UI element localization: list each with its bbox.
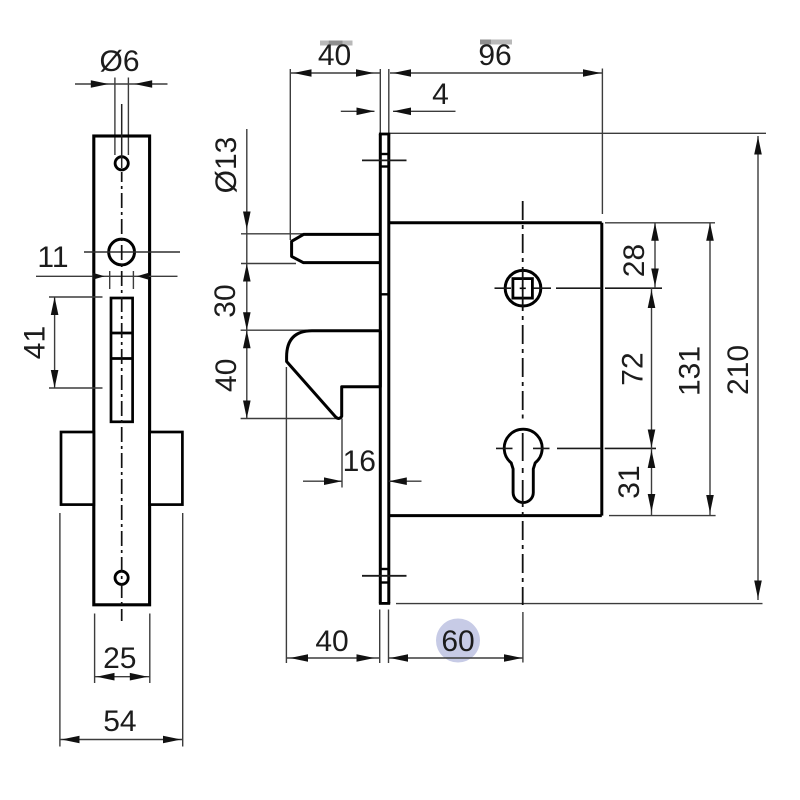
wire: 210 bottom extension line	[396, 603, 763, 605]
wire: 31 dimension line	[651, 448, 653, 515]
wire: 210 top extension line	[390, 132, 766, 134]
wire: center leader top	[121, 104, 123, 168]
svg-text:31: 31	[613, 465, 646, 498]
wire: bottom screw hole edge 2	[380, 581, 389, 583]
wire: plate face extension right above	[388, 69, 390, 134]
node: 16 arrow left (points right)	[324, 477, 342, 485]
wire: top screw hole edge 2	[380, 165, 389, 167]
node: Ø6 arrow left (points right)	[91, 80, 109, 88]
wire: pin hole horizontal centerline	[84, 251, 180, 253]
wire: body bottom tick right	[609, 515, 716, 517]
node: right side block	[150, 432, 183, 505]
node: grey smudge above 96	[480, 40, 512, 45]
node: faceplate side strip left face	[379, 134, 382, 603]
wire: 16 dimension line right	[389, 480, 422, 482]
node: 210 arrow up	[754, 137, 762, 155]
svg-text:Ø13: Ø13	[210, 137, 243, 194]
node: Ø13 arrow (points down)	[243, 212, 251, 230]
wire: tick hook point (y=418.5)	[241, 418, 338, 420]
wire: Ø6 dimension line	[75, 83, 168, 85]
node: 41 arrow down	[51, 370, 59, 388]
wire: 11 tick right	[132, 271, 134, 289]
svg-text:11: 11	[37, 241, 68, 274]
wire: 11 tick left	[109, 271, 111, 289]
wire: Ø13 leader line / stack dimension line	[246, 129, 248, 419]
wire: 72 dimension line	[651, 288, 653, 448]
node: 131 arrow down	[706, 495, 714, 513]
wire: 28 dimension line	[654, 223, 656, 288]
svg-text:96: 96	[478, 39, 511, 72]
wire: 210 dimension line	[757, 136, 759, 600]
node: 60 arrow right (points right)	[504, 654, 522, 662]
wire: top screw hole centerline	[362, 159, 407, 161]
node: 60 arrow left (points left)	[390, 654, 408, 662]
svg-text:4: 4	[432, 78, 449, 111]
node: grey smudge above 40	[320, 41, 353, 46]
wire: tick big hook top (y=330.2)	[241, 329, 310, 331]
wire: 96 right extension	[601, 69, 603, 215]
wire: 41 extension bottom	[49, 387, 103, 389]
wire: Ø6 extension line right	[127, 78, 129, 156]
wire: 25 extension right	[149, 614, 151, 684]
node: top screw hole	[115, 157, 128, 170]
node: 11 arrow left (points right)	[93, 273, 105, 280]
node: 25 arrow right (points right)	[130, 673, 148, 681]
wire: 11 dimension line	[36, 275, 178, 277]
svg-text:54: 54	[103, 705, 136, 738]
svg-text:Ø6: Ø6	[99, 45, 139, 78]
wire: 4 dimension line right part	[393, 110, 456, 112]
node: 40 bottom arrow right (points right)	[357, 654, 375, 662]
node: left side block	[61, 432, 94, 505]
node: 28 arrow up	[651, 223, 659, 241]
node: 31 arrow down	[648, 494, 656, 512]
wire: body top tick right	[605, 222, 715, 224]
wire: 96 dimension line	[390, 72, 602, 74]
wire: keyhole horizontal centerline	[496, 447, 513, 449]
node: faceplate side strip right face	[387, 134, 390, 603]
node: 54 arrow left (points left)	[62, 736, 80, 744]
node: lock body bottom edge	[389, 514, 602, 517]
node: 40 top arrow left (points left)	[294, 69, 312, 77]
node: 131 arrow up	[706, 223, 714, 241]
node: 210 arrow down	[754, 581, 762, 599]
node: lock body top edge	[389, 221, 602, 224]
node: 28 arrow down	[651, 269, 659, 287]
svg-text:41: 41	[19, 326, 52, 359]
node: 40 top arrow right (points right)	[356, 69, 374, 77]
node: bottom screw hole	[115, 571, 128, 584]
wire: plate bottom tick right	[388, 610, 390, 664]
wire: 54 dimension line	[60, 739, 183, 741]
svg-text:40: 40	[210, 359, 243, 392]
node: faceplate outline	[94, 136, 150, 605]
wire: Ø6 extension line left	[114, 78, 116, 156]
wire: 16 dimension line left	[303, 480, 342, 482]
node: 40L arrow down	[243, 401, 251, 419]
wire: top screw hole edge 1	[380, 153, 389, 155]
node: 96 arrow left (points left)	[393, 69, 411, 77]
node: lock body right edge	[600, 223, 603, 516]
node: spindle follower hub	[505, 270, 541, 306]
node: 60 highlight circle	[436, 619, 480, 663]
node: 4 arrow right (points left)	[393, 108, 411, 116]
node: main hook bolt	[287, 331, 381, 419]
svg-text:25: 25	[103, 642, 136, 675]
wire: tick hook bottom (y=263.5)	[241, 263, 296, 265]
wire: 131 dimension line	[709, 223, 711, 516]
node: 30 arrow down	[243, 312, 251, 330]
node: 4 arrow left (points right)	[357, 108, 375, 116]
node: 72 arrow down	[648, 430, 656, 448]
node: 40L arrow up	[243, 330, 251, 348]
svg-text:40: 40	[315, 625, 348, 658]
svg-text:28: 28	[618, 244, 651, 277]
wire: 40 top dimension line	[290, 72, 380, 74]
node: 40 bottom arrow left (points left)	[290, 654, 308, 662]
node: spindle square hole	[513, 279, 533, 299]
wire: 25 extension left	[94, 614, 96, 684]
wire: 41 dimension line	[54, 297, 56, 388]
wire: slot divider 2	[111, 357, 133, 360]
wire: 40 bottom left extension	[285, 367, 287, 663]
wire: 25 dimension line	[95, 676, 150, 678]
svg-text:131: 131	[674, 346, 707, 396]
wire: 60 dimension line	[389, 657, 524, 659]
svg-text:30: 30	[209, 284, 242, 317]
wire: 40 top left extension	[289, 69, 291, 240]
node: follower slot	[111, 298, 133, 422]
wire: bottom screw hole edge 1	[380, 568, 389, 570]
node: 16 arrow right (points left)	[389, 477, 407, 485]
node: pin hook (top hook, Ø13)	[292, 234, 381, 262]
wire: spindle vertical centerline (dash-dot)	[522, 201, 524, 605]
node: 11 arrow right (points left)	[137, 273, 149, 280]
wire: 54 extension right	[182, 513, 184, 747]
wire: tick hook top (y=233.8)	[241, 233, 303, 235]
node: euro cylinder keyhole	[504, 429, 542, 502]
wire: 16 extension line	[341, 419, 343, 488]
node: 41 arrow up	[51, 297, 59, 315]
svg-text:72: 72	[617, 352, 650, 385]
wire: keyhole center extension below	[522, 612, 524, 663]
wire: 40 bottom dimension line	[286, 657, 380, 659]
node: 31 arrow up	[648, 450, 656, 468]
svg-text:210: 210	[722, 345, 755, 395]
wire: plate bottom tick left	[379, 610, 381, 664]
wire: strip bottom edge	[379, 602, 390, 605]
node: 96 arrow right (points right)	[583, 69, 601, 77]
wire: 54 extension left	[59, 513, 61, 747]
wire: spindle horizontal centerline	[495, 287, 512, 289]
wire: slot divider 1	[111, 332, 133, 335]
wire: strip top edge	[379, 133, 390, 136]
svg-text:40: 40	[318, 39, 351, 72]
node: spindle center mark	[520, 287, 526, 289]
node: cylinder pin hole	[109, 239, 135, 265]
node: 72 arrow up	[648, 290, 656, 308]
wire: plate vertical centerline (dash-dot)	[121, 172, 123, 621]
wire: plate face extension left above	[379, 69, 381, 134]
node: Ø6 arrow right (points left)	[134, 80, 152, 88]
svg-text:60: 60	[441, 625, 474, 658]
svg-text:16: 16	[343, 445, 376, 478]
node: 54 arrow right (points right)	[163, 736, 181, 744]
wire: strip joint line	[380, 293, 389, 295]
node: 30 arrow up	[243, 264, 251, 282]
wire: bottom screw hole centerline	[362, 575, 407, 577]
wire: 41 extension top	[49, 296, 103, 298]
node: 25 arrow left (points left)	[97, 673, 115, 681]
wire: 4 dimension line left part	[341, 110, 375, 112]
